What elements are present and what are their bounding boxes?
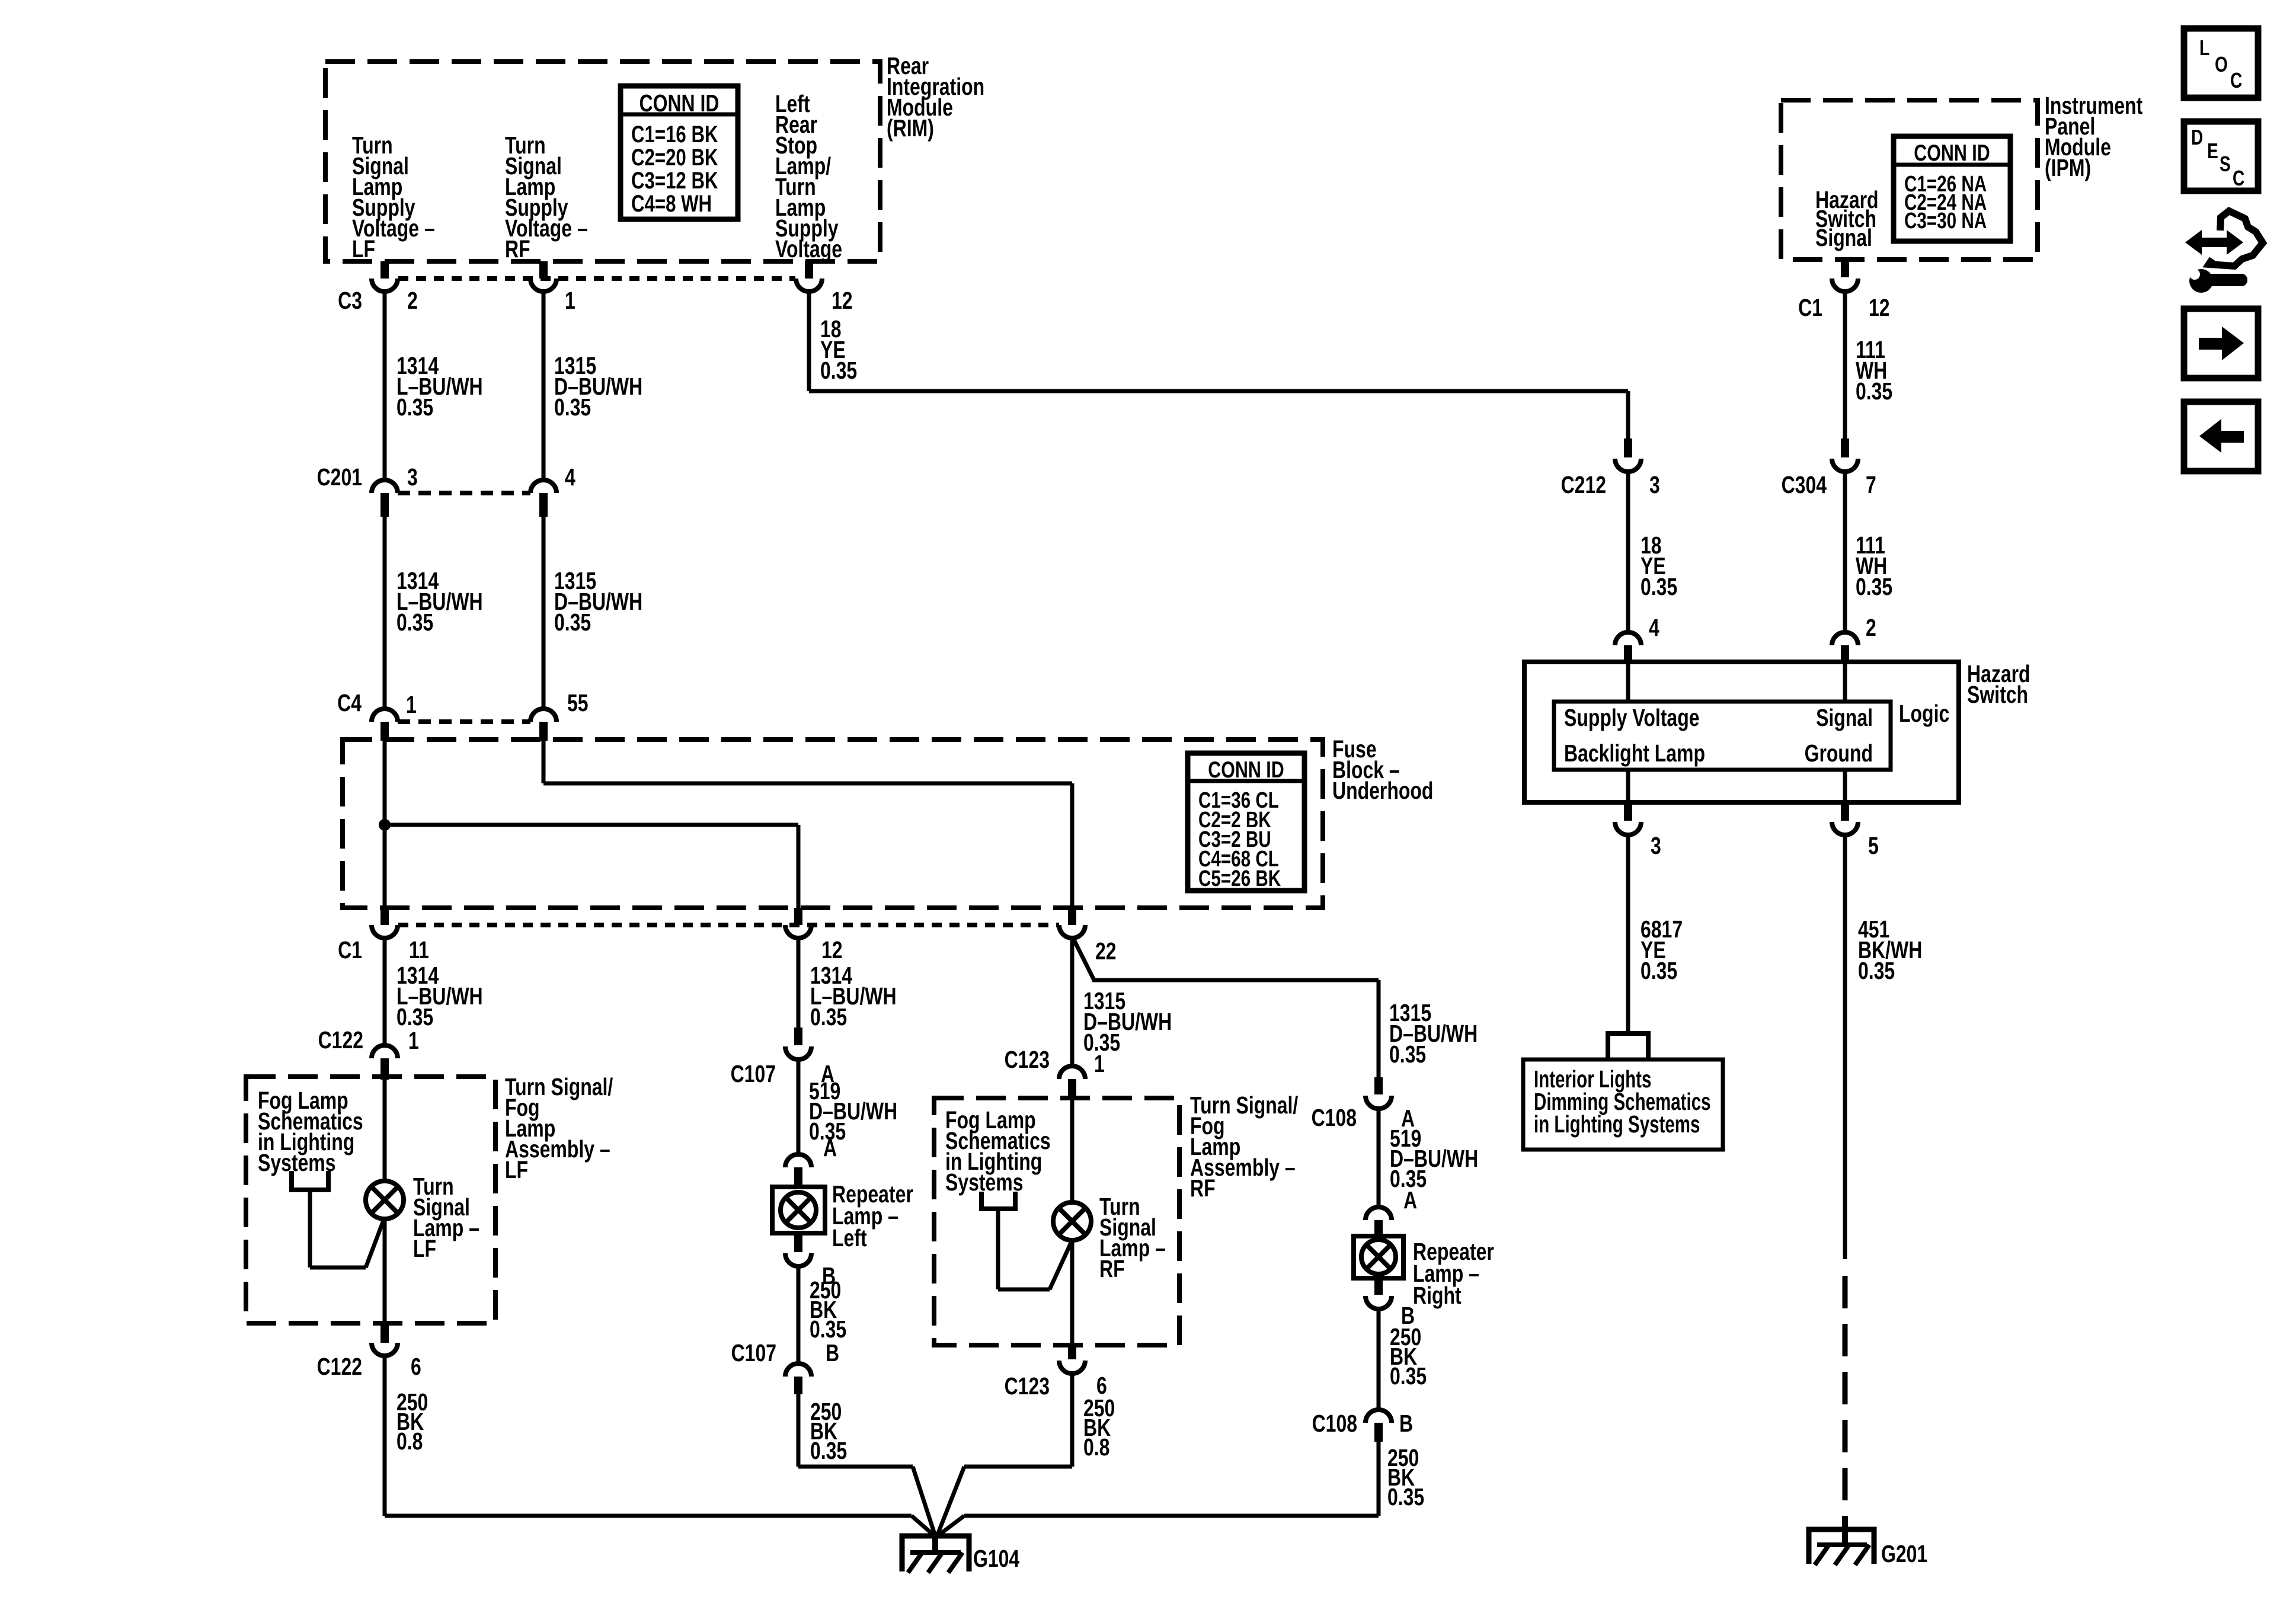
- connector C122 pin 6 (stub+cup): [372, 1323, 398, 1356]
- wire label 1314 L-BU/WH 0.35 (to C122): [396, 962, 483, 1030]
- svg-text:Logic: Logic: [1899, 700, 1949, 727]
- svg-text:D: D: [2191, 126, 2203, 149]
- svg-text:CONN ID: CONN ID: [1208, 757, 1284, 782]
- label pin 1: [406, 691, 417, 718]
- label C3: [338, 287, 362, 314]
- RIM CONN ID table: [621, 86, 738, 219]
- label C122: [318, 1026, 363, 1054]
- logic box text Supply Voltage: [1564, 704, 1700, 731]
- wire 1314 to C122: [383, 938, 387, 1045]
- RIM pin label: Left Rear Stop Lamp/Turn Lamp Supply Voltage: [775, 90, 842, 263]
- label C201: [317, 463, 362, 491]
- repeater right label: [1413, 1238, 1494, 1309]
- connector C3 pin 12 (stub+cup): [796, 261, 822, 292]
- svg-text:1: 1: [1094, 1050, 1105, 1077]
- svg-text:C201: C201: [317, 463, 362, 491]
- hazard internal wire pin5: [1843, 770, 1847, 802]
- label C107 B: [731, 1339, 840, 1366]
- wire 250 BK below C107: [797, 1394, 801, 1467]
- svg-text:3: 3: [1649, 471, 1660, 498]
- logic box text Signal: [1816, 704, 1873, 731]
- connector pin 5 below hazard (stub+cup): [1832, 802, 1858, 835]
- connector C1 IPM pin 12 (stub+cup): [1832, 260, 1858, 292]
- icon wrench-arrow: [2185, 211, 2263, 293]
- svg-text:C1: C1: [338, 936, 362, 964]
- IPM label text: [2045, 92, 2142, 181]
- label C212: [1561, 471, 1606, 498]
- connector C108 pin A (stub+cup): [1366, 1077, 1392, 1109]
- svg-text:C107: C107: [731, 1339, 776, 1366]
- label pin B (repeater left): [822, 1262, 836, 1289]
- svg-text:S: S: [2220, 152, 2231, 176]
- connector C3 dotted face line: [398, 276, 795, 281]
- wire into lamp RF: [1070, 1100, 1075, 1204]
- svg-text:C107: C107: [731, 1060, 776, 1087]
- module box: Rear Integration Module (RIM): [325, 62, 880, 261]
- wire label 1314 L-BU/WH 0.35 (seg1): [396, 352, 483, 421]
- svg-text:C123: C123: [1005, 1046, 1050, 1073]
- svg-text:C1=36 CLC2=2 BKC3=2 BUC4=68 CL: C1=36 CLC2=2 BKC3=2 BUC4=68 CLC5=26 BK: [1198, 788, 1281, 891]
- connector pin 2 hazard (dome+stub): [1832, 632, 1858, 664]
- wire 18 YE segment 2: [1626, 472, 1630, 632]
- wire label 250 BK 0.8 (LF): [396, 1388, 428, 1455]
- wire 250 BK below C108: [1377, 1442, 1381, 1516]
- wire label 1314 L-BU/WH 0.35 (seg2): [396, 567, 483, 636]
- ground bus wire upper left (C107): [798, 1465, 913, 1469]
- connector C304 pin 7 (stub+cup): [1832, 438, 1858, 472]
- svg-text:C1: C1: [1798, 294, 1822, 321]
- lamp: Turn Signal Lamp - RF: [1053, 1202, 1091, 1240]
- wire 519 D-BU/WH (left): [797, 1060, 801, 1153]
- label pin 12 (IPM): [1869, 294, 1890, 321]
- label pin B (repeater right): [1401, 1302, 1415, 1329]
- assembly label: Turn Signal/Fog Lamp Assembly - RF: [1190, 1092, 1298, 1202]
- wire below lamp RF: [1070, 1239, 1075, 1345]
- funnel wires into G104: [912, 1467, 964, 1536]
- svg-text:12: 12: [1869, 294, 1890, 321]
- connector C1 pin 12 (stub+cup): [785, 908, 811, 938]
- label pin A: [1401, 1105, 1415, 1132]
- wire 1314 L-BU/WH segment 1: [383, 292, 387, 480]
- connector C3 pin 1 (stub+cup): [530, 261, 557, 292]
- icon box DESC: [2184, 121, 2258, 191]
- svg-text:6: 6: [411, 1353, 421, 1380]
- label pin 4 (hazard): [1649, 614, 1659, 641]
- connector C201 pin 4 (dome+stub): [530, 480, 557, 517]
- label pin 5 (below hazard): [1868, 832, 1879, 859]
- IPM CONN ID table: [1894, 136, 2010, 241]
- svg-text:12: 12: [832, 287, 853, 314]
- svg-text:G201: G201: [1881, 1540, 1927, 1567]
- label pin 1: [408, 1027, 419, 1054]
- logic box text Backlight Lamp: [1564, 740, 1705, 767]
- wire label 451 BK/WH 0.35: [1858, 916, 1922, 984]
- label C107: [731, 1060, 776, 1087]
- icon box arrow right: [2184, 309, 2258, 378]
- wire label 18 YE 0.35 (top): [820, 315, 857, 384]
- label C1 (IPM): [1798, 294, 1822, 321]
- svg-text:12: 12: [821, 936, 843, 964]
- junction node in fuse block: [379, 819, 391, 831]
- wire 451 BK/WH solid: [1843, 835, 1847, 1259]
- svg-text:C1=26 NAC2=24 NAC3=30 NA: C1=26 NAC2=24 NAC3=30 NA: [1904, 172, 1987, 233]
- ground bus wire lower right (C108): [964, 1514, 1379, 1518]
- svg-text:7: 7: [1866, 471, 1876, 498]
- svg-text:C122: C122: [318, 1026, 363, 1054]
- svg-text:22: 22: [1095, 937, 1117, 965]
- fog lamp stub bracket (LF): [292, 1171, 328, 1190]
- Interior Lights text: [1534, 1065, 1711, 1138]
- label C122 6: [317, 1353, 421, 1380]
- label C1: [338, 936, 362, 964]
- label pin 2: [407, 287, 418, 314]
- label pin 12: [832, 287, 853, 314]
- wire label 111 WH 0.35 (seg2): [1856, 532, 1892, 600]
- wire 1315 pin22 drop to C123: [1070, 938, 1075, 1066]
- Fuse Block CONN ID table: [1188, 753, 1304, 891]
- svg-text:L: L: [2199, 36, 2209, 60]
- RIM label text: [887, 52, 984, 142]
- wire label 1315 D-BU/WH 0.35 (C108 branch): [1389, 999, 1478, 1068]
- connector C107 pin B (dome+stub): [785, 1363, 811, 1394]
- wire 519 D-BU/WH (right): [1377, 1109, 1381, 1207]
- connector pin 4 hazard (dome+stub): [1615, 632, 1641, 664]
- svg-text:C4: C4: [337, 689, 362, 716]
- svg-text:C3: C3: [338, 287, 362, 314]
- label C304: [1782, 471, 1827, 498]
- svg-text:C108: C108: [1312, 1104, 1357, 1131]
- hazard internal wire pin2: [1843, 664, 1847, 702]
- wire 250 BK 0.8 (LF ground): [383, 1356, 387, 1516]
- lamp: Turn Signal Lamp - LF: [366, 1181, 404, 1219]
- ground bus wire lower left (LF): [385, 1514, 912, 1518]
- logic box text Ground: [1805, 740, 1873, 767]
- svg-text:C212: C212: [1561, 471, 1606, 498]
- svg-text:HazardSwitchSignal: HazardSwitchSignal: [1815, 186, 1879, 251]
- label C123 6: [1005, 1372, 1107, 1400]
- label pin 3 (C212): [1649, 471, 1660, 498]
- label pin 12: [821, 936, 843, 964]
- wire 18 YE from RIM pin 12: [807, 292, 1630, 438]
- svg-text:A: A: [1403, 1186, 1417, 1214]
- wire label 250 BK 0.35 (repeater left): [810, 1276, 846, 1343]
- wire label 111 WH 0.35 (seg1): [1856, 336, 1892, 405]
- wire 1315 branch diagonal to C108: [1074, 940, 1381, 1077]
- Fog Lamp Schematics text (LF): [258, 1087, 363, 1176]
- repeater left label: [832, 1180, 913, 1251]
- connector C1 dotted face line: [398, 923, 1059, 927]
- connector C1 pin 22 (stub+cup): [1059, 908, 1085, 938]
- fog lamp stub bracket (RF): [981, 1192, 1015, 1209]
- svg-text:B: B: [826, 1339, 839, 1366]
- label pin 7 (C304): [1866, 471, 1876, 498]
- lamp: Repeater Lamp - Left: [772, 1187, 825, 1233]
- fog lamp branch wire (RF): [996, 1209, 1073, 1292]
- wire label 519 D-BU/WH 0.35 A (left): [809, 1077, 897, 1161]
- connector pin 3 below hazard (stub+cup): [1615, 802, 1641, 835]
- module box: Fuse Block - Underhood: [343, 740, 1323, 908]
- lamp: Repeater Lamp - Right: [1354, 1236, 1403, 1278]
- RIM pin label: Turn Signal Lamp Supply Voltage - RF: [505, 132, 588, 263]
- svg-text:5: 5: [1868, 832, 1879, 859]
- svg-text:3: 3: [407, 463, 418, 491]
- label C108 B: [1312, 1410, 1414, 1437]
- svg-text:1: 1: [408, 1027, 419, 1054]
- wire 250 BK (repeater right): [1377, 1309, 1381, 1410]
- interior lights stub bracket: [1608, 1033, 1648, 1060]
- ground G201 symbol: [1809, 1516, 1874, 1565]
- label C4: [337, 689, 362, 716]
- wire 250 BK 0.8 (RF ground): [1070, 1374, 1075, 1467]
- wire label 6817 YE 0.35: [1641, 916, 1683, 984]
- wire 451 BK/WH dashed to G201: [1843, 1276, 1848, 1516]
- ref box: Fog Lamp Schematics (LF): [246, 1077, 495, 1323]
- connector C201 dashed line: [398, 491, 530, 495]
- Fog Lamp Schematics text (RF): [945, 1106, 1051, 1196]
- lamp label Turn Signal Lamp - LF: [413, 1173, 479, 1262]
- wire label 1315 D-BU/WH 0.35 (seg1): [554, 352, 642, 421]
- label G201: [1881, 1540, 1927, 1567]
- ref box: Fog Lamp Schematics (RF): [934, 1098, 1179, 1345]
- wire label 250 BK 0.35 (below C107): [810, 1398, 847, 1464]
- svg-text:G104: G104: [973, 1545, 1020, 1572]
- Hazard Switch label: [1967, 660, 2030, 708]
- icon box LOC: [2184, 28, 2258, 98]
- label pin A: [821, 1060, 834, 1087]
- icon box arrow left: [2184, 402, 2258, 471]
- wire label 250 BK 0.35 (repeater right): [1390, 1323, 1427, 1390]
- hazard internal wire pin3: [1626, 770, 1630, 802]
- logic box in hazard switch: [1554, 702, 1891, 770]
- ground bus wire upper right (C123): [964, 1465, 1072, 1469]
- wire label 18 YE 0.35 (seg2): [1641, 532, 1677, 600]
- connector C201 pin 3 (dome+stub): [372, 480, 398, 517]
- connector C108 pin B (dome+stub): [1366, 1410, 1392, 1442]
- IPM pin label: Hazard Switch Signal: [1815, 186, 1879, 251]
- component box: Hazard Switch: [1524, 662, 1959, 802]
- wire 1314 L-BU/WH segment 2: [383, 517, 387, 709]
- svg-text:HazardSwitch: HazardSwitch: [1967, 660, 2030, 708]
- module box: Instrument Panel Module (IPM): [1781, 100, 2038, 260]
- connector C4 pin 1 (dome+stub): [372, 709, 398, 741]
- svg-text:C304: C304: [1782, 471, 1827, 498]
- label pin 3: [407, 463, 418, 491]
- label pin 1: [565, 287, 575, 314]
- connector C107 pin A (stub+cup): [785, 1028, 811, 1060]
- svg-text:E: E: [2207, 139, 2218, 163]
- svg-text:55: 55: [567, 689, 589, 716]
- label pin 3 (below hazard): [1651, 832, 1661, 859]
- svg-text:C123: C123: [1005, 1372, 1050, 1400]
- hazard internal wire pin4: [1626, 664, 1630, 702]
- terminal B stub+cup (repeater left): [785, 1233, 811, 1266]
- connector C123 pin 6 (stub+cup): [1059, 1345, 1085, 1374]
- svg-text:4: 4: [1649, 614, 1659, 641]
- svg-text:CONN ID: CONN ID: [1914, 140, 1990, 165]
- wire into lamp LF: [383, 1080, 387, 1183]
- label G104: [973, 1545, 1020, 1572]
- fuse block internal branch to pin 12: [385, 823, 801, 908]
- svg-text:B: B: [1399, 1410, 1413, 1437]
- wire label 1315 D-BU/WH 0.35 (C123 branch): [1083, 987, 1172, 1056]
- RIM pin label: Turn Signal Lamp Supply Voltage - LF: [352, 132, 435, 263]
- label pin 4: [565, 463, 575, 491]
- label pin 2 (hazard): [1866, 614, 1876, 641]
- label pin 22: [1095, 937, 1117, 965]
- connector C123 pin 1 (dome+stub): [1059, 1066, 1085, 1100]
- connector C4 dashed line: [398, 719, 530, 724]
- wire 250 BK (repeater left): [797, 1266, 801, 1363]
- wire label 250 BK 0.8 (RF): [1083, 1394, 1115, 1461]
- connector C212 pin 3 (stub+cup): [1615, 438, 1641, 472]
- wire 1314 to C107: [797, 938, 801, 1028]
- label Logic: [1899, 700, 1949, 727]
- svg-text:C1=16 BKC2=20 BKC3=12 BKC4=8 W: C1=16 BKC2=20 BKC3=12 BKC4=8 WH: [631, 121, 718, 217]
- connector C122 pin 1 (dome+stub): [372, 1045, 398, 1080]
- wire 1315 D-BU/WH segment 1: [542, 292, 546, 480]
- svg-text:C122: C122: [317, 1353, 362, 1380]
- svg-text:Signal: Signal: [1816, 704, 1873, 731]
- terminal A dome (repeater right): [1366, 1207, 1392, 1237]
- label C123: [1005, 1046, 1050, 1073]
- svg-text:1: 1: [406, 691, 417, 718]
- label pin 1: [1094, 1050, 1105, 1077]
- terminal B stub+cup (repeater right): [1366, 1278, 1392, 1309]
- svg-text:Supply Voltage: Supply Voltage: [1564, 704, 1700, 731]
- svg-text:C: C: [2230, 69, 2242, 92]
- wire 1315 D-BU/WH segment 2: [542, 517, 546, 709]
- svg-text:1: 1: [565, 287, 575, 314]
- ref box: Interior Lights Dimming Schematics: [1523, 1060, 1723, 1150]
- wire 111 WH segment 1: [1843, 292, 1847, 440]
- svg-text:O: O: [2215, 53, 2228, 76]
- label pin 11: [409, 936, 429, 964]
- wire label 1315 D-BU/WH 0.35 (seg2): [554, 567, 642, 636]
- assembly label: Turn Signal/Fog Lamp Assembly - LF: [505, 1073, 613, 1183]
- label pin 55: [567, 689, 589, 716]
- svg-text:C: C: [2233, 167, 2244, 190]
- fog lamp branch wire (LF): [308, 1190, 385, 1270]
- svg-text:A: A: [823, 1134, 837, 1161]
- svg-text:2: 2: [1866, 614, 1876, 641]
- ground G104 symbol: [902, 1534, 969, 1573]
- connector C1 pin 11 (stub+cup): [372, 908, 398, 938]
- svg-text:4: 4: [565, 463, 575, 491]
- svg-text:C108: C108: [1312, 1410, 1357, 1437]
- wire label 250 BK 0.35 (below C108): [1387, 1444, 1424, 1510]
- svg-text:2: 2: [407, 287, 418, 314]
- fuse block internal wire B (pin55 to pin22): [542, 741, 1075, 908]
- lamp label Turn Signal Lamp - RF: [1099, 1193, 1166, 1282]
- svg-text:11: 11: [409, 936, 429, 964]
- label C108: [1312, 1104, 1357, 1131]
- svg-text:Ground: Ground: [1805, 740, 1873, 767]
- terminal A dome (repeater left): [785, 1154, 811, 1188]
- svg-text:CONN ID: CONN ID: [639, 89, 720, 117]
- connector C4 pin 55 (dome+stub): [530, 709, 557, 741]
- wire below lamp LF: [383, 1217, 387, 1323]
- svg-text:3: 3: [1651, 832, 1661, 859]
- wire 6817 YE: [1626, 835, 1630, 1033]
- connector C3 pin 2 (stub+cup): [372, 261, 398, 292]
- wire 111 WH segment 2: [1843, 472, 1847, 632]
- wire label 1314 L-BU/WH 0.35 (to C107): [810, 962, 897, 1030]
- fuse block internal wire A (pin1 to pin11): [383, 741, 387, 908]
- wire label 519 D-BU/WH 0.35 A (right): [1390, 1125, 1478, 1214]
- Fuse Block label text: [1332, 735, 1433, 804]
- svg-text:Backlight Lamp: Backlight Lamp: [1564, 740, 1705, 767]
